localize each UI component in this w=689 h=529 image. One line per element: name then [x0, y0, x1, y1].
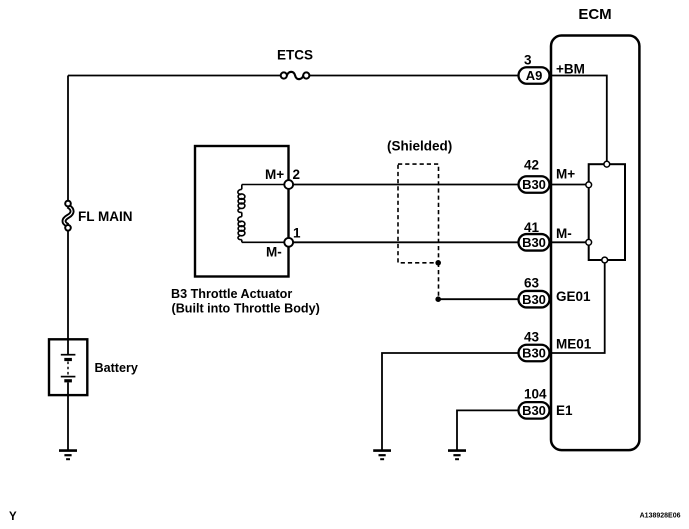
svg-text:A9: A9 [526, 68, 543, 83]
svg-text:42: 42 [524, 158, 539, 173]
svg-text:FL MAIN: FL MAIN [78, 209, 133, 224]
svg-text:A138928E06: A138928E06 [640, 513, 681, 520]
svg-text:M+: M+ [265, 167, 284, 182]
svg-text:B30: B30 [522, 235, 546, 250]
svg-text:ETCS: ETCS [277, 48, 313, 63]
svg-text:2: 2 [293, 167, 301, 182]
svg-text:43: 43 [524, 330, 540, 345]
svg-text:M+: M+ [556, 167, 575, 182]
svg-text:(Built into Throttle Body): (Built into Throttle Body) [172, 302, 320, 316]
svg-text:B30: B30 [522, 177, 546, 192]
svg-text:B30: B30 [522, 292, 546, 307]
svg-text:3: 3 [524, 53, 532, 68]
svg-text:M-: M- [266, 245, 282, 260]
svg-text:41: 41 [524, 220, 540, 235]
svg-text:63: 63 [524, 276, 540, 291]
svg-text:E1: E1 [556, 403, 573, 418]
svg-text:B30: B30 [522, 403, 546, 418]
svg-text:GE01: GE01 [556, 289, 591, 304]
svg-text:+BM: +BM [556, 62, 585, 77]
svg-text:104: 104 [524, 387, 547, 402]
svg-text:ECM: ECM [578, 6, 611, 23]
svg-text:B30: B30 [522, 346, 546, 361]
svg-text:M-: M- [556, 226, 572, 241]
svg-text:Y: Y [9, 511, 17, 523]
svg-text:ME01: ME01 [556, 336, 592, 351]
svg-text:1: 1 [293, 226, 301, 241]
svg-text:(Shielded): (Shielded) [387, 139, 452, 154]
svg-text:B3 Throttle Actuator: B3 Throttle Actuator [171, 287, 292, 301]
svg-text:Battery: Battery [95, 361, 138, 375]
